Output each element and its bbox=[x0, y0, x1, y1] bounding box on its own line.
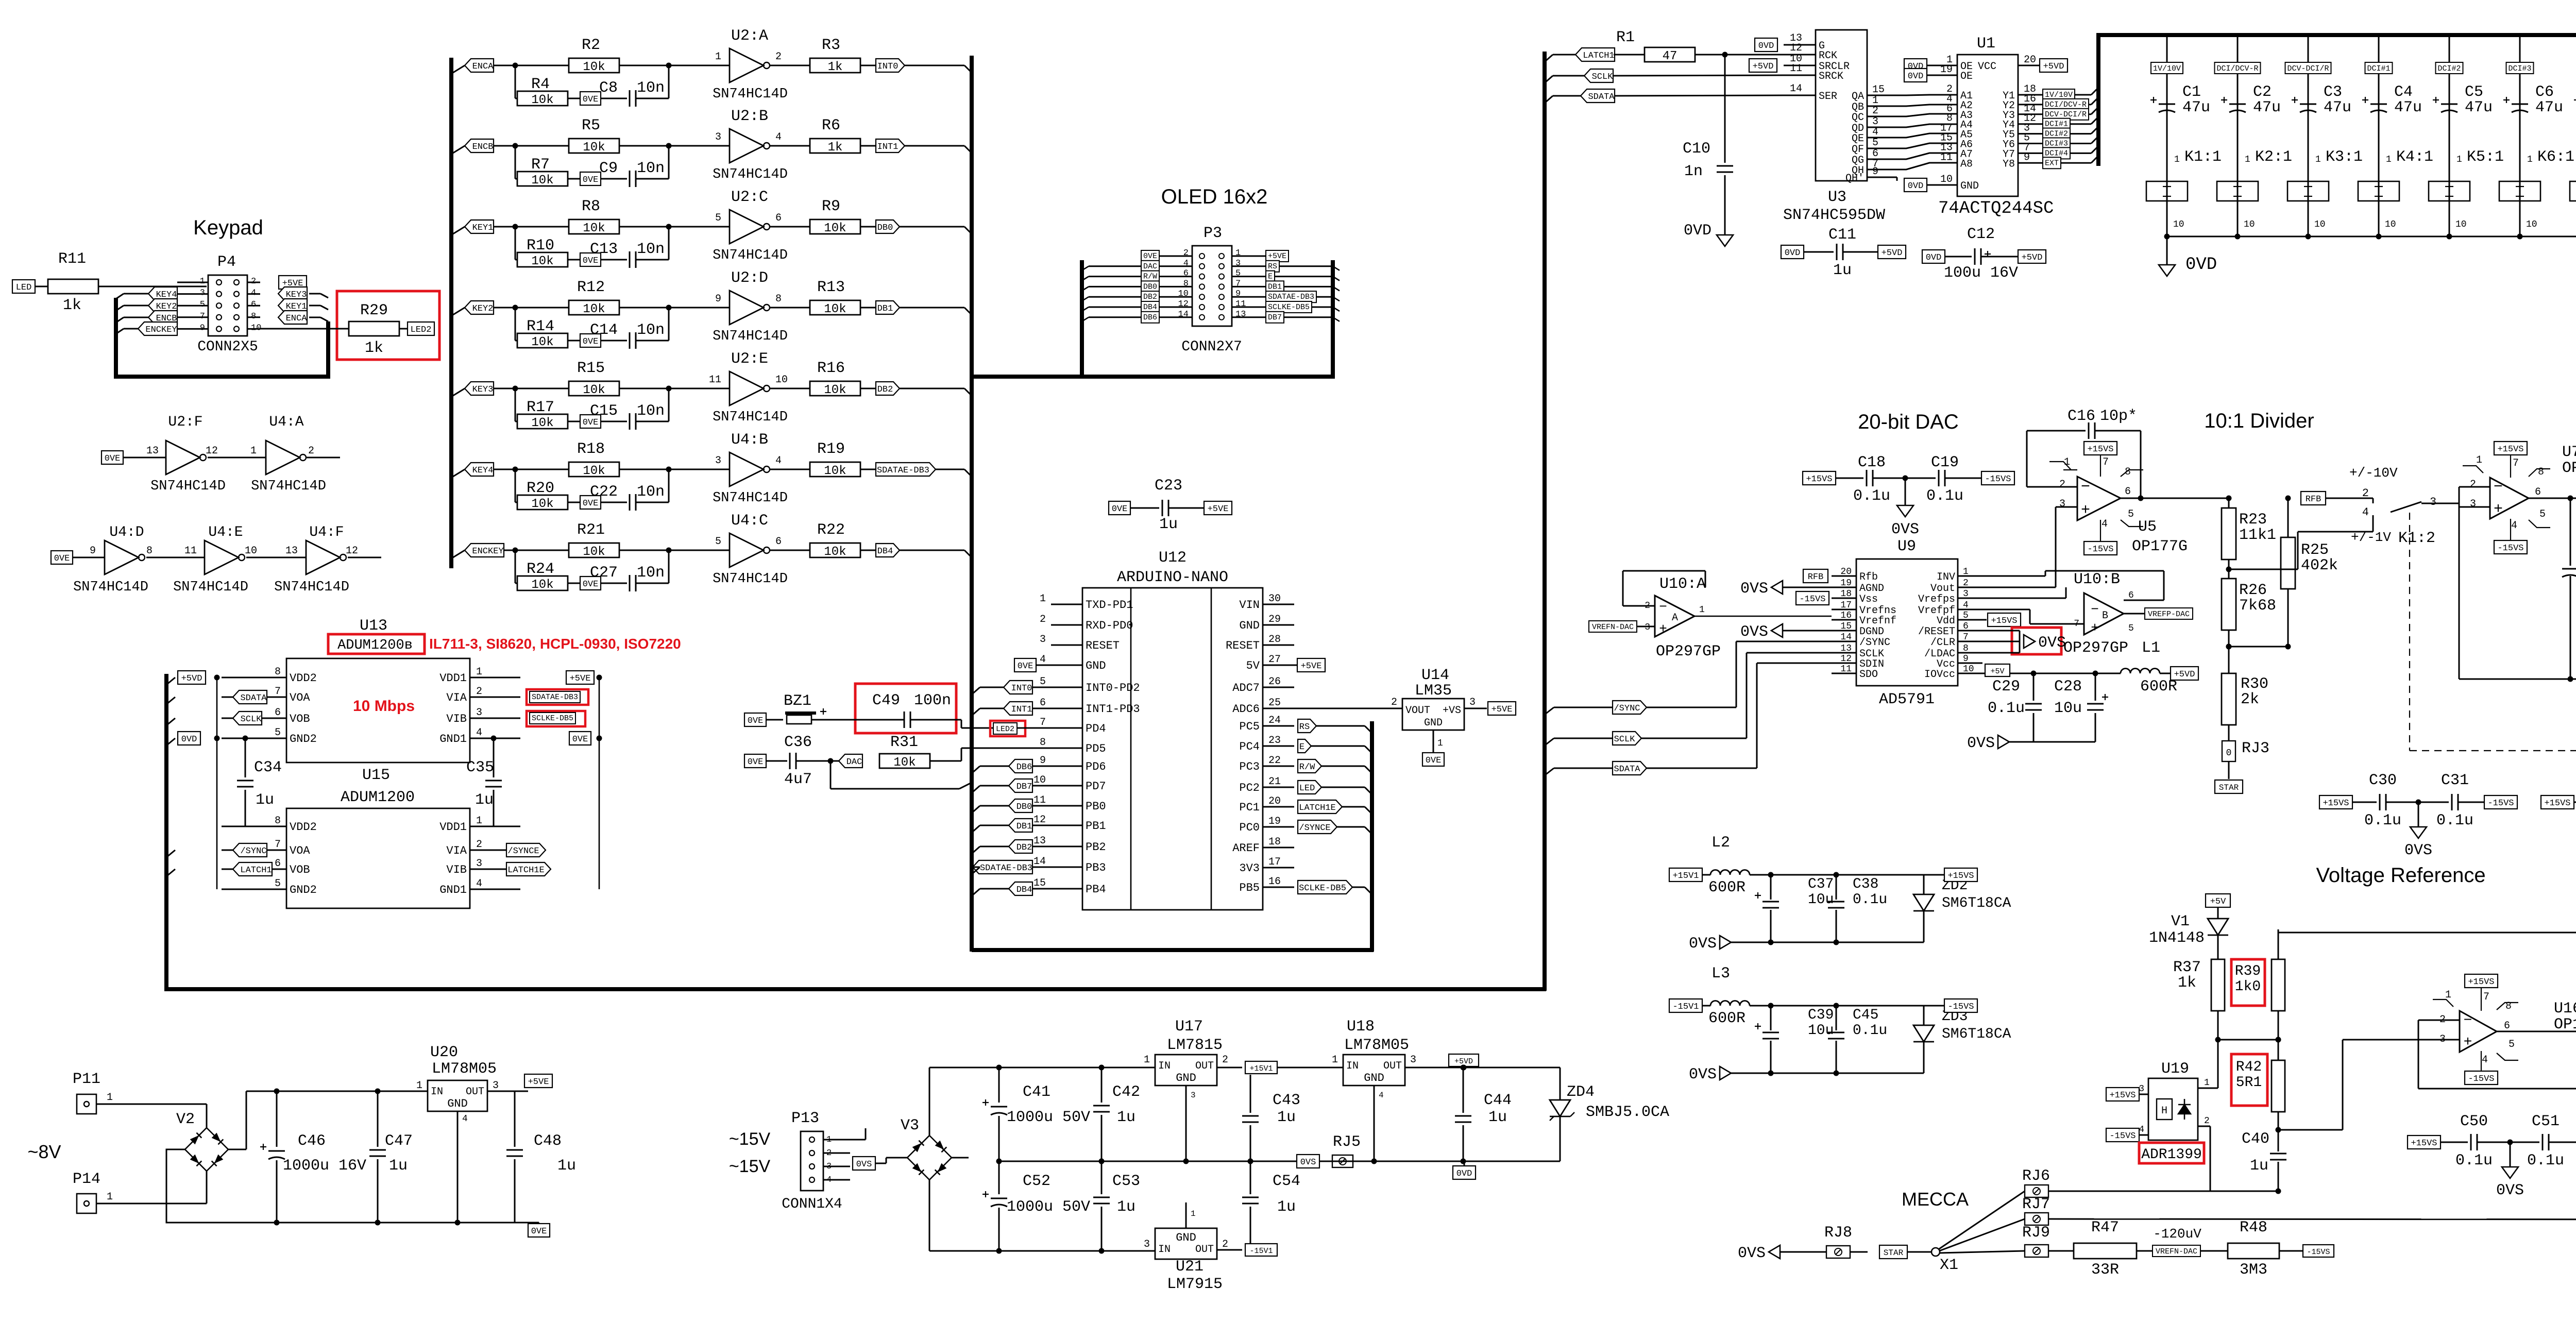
svg-text:VREFN-DAC: VREFN-DAC bbox=[1592, 623, 1634, 632]
svg-text:47u: 47u bbox=[2253, 99, 2281, 116]
svg-text:1k: 1k bbox=[828, 60, 843, 74]
wire row KEY1 branch bbox=[451, 227, 465, 235]
svg-text:402k: 402k bbox=[2301, 557, 2338, 574]
svg-text:11: 11 bbox=[1840, 664, 1852, 674]
svg-text:0VS: 0VS bbox=[1300, 1158, 1316, 1167]
svg-text:13: 13 bbox=[146, 445, 159, 457]
svg-text:+: + bbox=[2081, 502, 2090, 519]
svg-text:U2:F: U2:F bbox=[168, 414, 202, 430]
net label ENCB bbox=[148, 311, 177, 324]
svg-text:~8V: ~8V bbox=[27, 1141, 61, 1162]
svg-text:U12: U12 bbox=[1159, 549, 1187, 567]
svg-text:0VD: 0VD bbox=[1785, 248, 1801, 258]
svg-text:6: 6 bbox=[1963, 621, 1969, 632]
svg-text:-15VS: -15VS bbox=[2307, 1248, 2330, 1257]
svg-text:10k: 10k bbox=[824, 545, 846, 559]
svg-text:U10:B: U10:B bbox=[2074, 571, 2120, 588]
svg-text:5: 5 bbox=[1963, 611, 1969, 621]
svg-text:U3: U3 bbox=[1828, 189, 1846, 206]
svg-text:25: 25 bbox=[1268, 697, 1281, 709]
svg-text:K2:1: K2:1 bbox=[2255, 148, 2292, 166]
net label -15V1 U21 bbox=[1245, 1244, 1277, 1256]
net label +5V V1 bbox=[2206, 894, 2230, 907]
svg-text:0VS: 0VS bbox=[1740, 623, 1768, 641]
svg-text:1: 1 bbox=[1699, 605, 1705, 615]
svg-text:+5V: +5V bbox=[1990, 667, 2004, 676]
svg-text:R25: R25 bbox=[2301, 541, 2329, 559]
net label 0VD mid rail bbox=[1453, 1166, 1476, 1179]
wire to gate U4:B bbox=[669, 469, 730, 470]
svg-text:QF: QF bbox=[1852, 144, 1864, 156]
wire SCLK to U9 bbox=[1641, 738, 1747, 739]
svg-text:DCI#2: DCI#2 bbox=[2437, 64, 2461, 73]
svg-text:9: 9 bbox=[2024, 151, 2030, 163]
wire U5 output bbox=[2121, 498, 2229, 499]
svg-text:100n: 100n bbox=[914, 692, 951, 709]
net label SCLKE-DB5 bbox=[530, 713, 575, 724]
net label STAR X1 bbox=[1879, 1245, 1907, 1259]
wire R39R37 junction right bbox=[2276, 1037, 2281, 1043]
svg-text:DB1: DB1 bbox=[877, 304, 893, 314]
svg-text:+5VE: +5VE bbox=[1301, 662, 1322, 671]
bus ADUM left bbox=[164, 674, 168, 991]
svg-text:U16: U16 bbox=[2554, 1000, 2576, 1018]
wire gate U4:C output bbox=[770, 550, 810, 551]
svg-text:DCI#2: DCI#2 bbox=[2045, 130, 2068, 139]
svg-text:GND: GND bbox=[1086, 659, 1106, 672]
wire keypad left bbox=[124, 293, 148, 295]
svg-text:/SYNC: /SYNC bbox=[240, 846, 266, 856]
svg-text:+: + bbox=[2494, 501, 2503, 518]
svg-text:11: 11 bbox=[184, 545, 197, 557]
svg-text:5R1: 5R1 bbox=[2236, 1075, 2262, 1091]
svg-text:3: 3 bbox=[476, 858, 482, 870]
svg-text:21: 21 bbox=[1268, 776, 1281, 788]
svg-text:+15VS: +15VS bbox=[1947, 871, 1974, 881]
svg-text:0VS: 0VS bbox=[1738, 1245, 1766, 1262]
IC U15 body bbox=[286, 808, 470, 908]
svg-text:+/-1V: +/-1V bbox=[2351, 530, 2391, 545]
svg-text:DCV-DCI/R: DCV-DCI/R bbox=[2045, 110, 2087, 119]
svg-text:DB4: DB4 bbox=[1143, 303, 1157, 312]
svg-text:1: 1 bbox=[476, 815, 482, 827]
svg-text:7: 7 bbox=[1963, 632, 1969, 642]
svg-text:RJ3: RJ3 bbox=[2242, 740, 2269, 757]
svg-text:9: 9 bbox=[1872, 166, 1878, 178]
svg-text:PC0: PC0 bbox=[1239, 821, 1260, 834]
svg-text:0VS: 0VS bbox=[856, 1160, 872, 1170]
opamp U16 bbox=[2465, 974, 2498, 988]
svg-text:47u: 47u bbox=[2465, 99, 2493, 116]
svg-text:SDATAE-DB3: SDATAE-DB3 bbox=[980, 863, 1032, 873]
svg-text:C23: C23 bbox=[1155, 477, 1182, 495]
svg-text:2: 2 bbox=[2204, 1116, 2210, 1126]
svg-text:1: 1 bbox=[1332, 1054, 1338, 1066]
svg-text:3: 3 bbox=[2430, 496, 2436, 509]
svg-text:10n: 10n bbox=[637, 402, 665, 420]
svg-text:4: 4 bbox=[476, 878, 482, 890]
svg-text:-15VS: -15VS bbox=[1947, 1002, 1974, 1012]
svg-text:R29: R29 bbox=[360, 302, 388, 319]
svg-text:0VD: 0VD bbox=[1908, 181, 1924, 191]
svg-text:KEY2: KEY2 bbox=[472, 304, 494, 314]
svg-text:0VE: 0VE bbox=[105, 454, 121, 464]
svg-text:1k: 1k bbox=[828, 141, 843, 155]
svg-text:SN74HC14D: SN74HC14D bbox=[713, 87, 788, 102]
wire U20 gnd bbox=[457, 1111, 459, 1223]
bus relay feed bbox=[2096, 33, 2100, 166]
svg-text:DCI#1: DCI#1 bbox=[2367, 64, 2390, 73]
svg-text:30: 30 bbox=[1268, 593, 1281, 605]
net label -15VS U9 bbox=[1796, 591, 1829, 605]
svg-text:14: 14 bbox=[1790, 83, 1802, 95]
ground 0VD relays bbox=[2166, 236, 2168, 265]
svg-text:1u: 1u bbox=[1117, 1109, 1136, 1126]
svg-text:U4:E: U4:E bbox=[208, 524, 243, 540]
wire row ENCKEY branch bbox=[451, 550, 465, 558]
svg-text:10k: 10k bbox=[531, 416, 553, 430]
svg-text:4: 4 bbox=[2482, 1054, 2488, 1066]
wire column C1 bbox=[2166, 35, 2168, 236]
svg-text:10p*: 10p* bbox=[2100, 408, 2137, 425]
svg-text:/RESET: /RESET bbox=[1918, 626, 1955, 638]
svg-text:U19: U19 bbox=[2161, 1060, 2189, 1078]
svg-text:/SYNCE: /SYNCE bbox=[1299, 823, 1330, 833]
svg-text:2: 2 bbox=[476, 839, 482, 851]
svg-text:10k: 10k bbox=[824, 222, 846, 235]
svg-text:8: 8 bbox=[775, 293, 782, 305]
svg-text:PD6: PD6 bbox=[1086, 760, 1106, 773]
svg-text:U4:C: U4:C bbox=[731, 512, 768, 530]
svg-text:2: 2 bbox=[2059, 479, 2065, 490]
svg-text:C49: C49 bbox=[872, 692, 900, 709]
svg-text:3: 3 bbox=[715, 455, 721, 467]
wire to gate U4:C bbox=[669, 550, 730, 551]
svg-text:DAC: DAC bbox=[846, 757, 862, 767]
svg-text:K1:1: K1:1 bbox=[2184, 148, 2222, 166]
svg-text:9: 9 bbox=[715, 293, 721, 305]
svg-text:R18: R18 bbox=[577, 440, 605, 458]
svg-text:10:1 Divider: 10:1 Divider bbox=[2204, 410, 2314, 432]
svg-text:1u: 1u bbox=[475, 791, 494, 809]
net label KEY4 bbox=[465, 463, 494, 476]
svg-text:SCLK: SCLK bbox=[1614, 735, 1636, 744]
svg-text:0VE: 0VE bbox=[1426, 756, 1442, 766]
wire SDATA to U3 SER bbox=[1615, 95, 1784, 96]
svg-text:ADR1399: ADR1399 bbox=[2141, 1147, 2202, 1163]
svg-text:DCV-DCI/R: DCV-DCI/R bbox=[2287, 64, 2329, 73]
wire bottom rail relays bbox=[2167, 236, 2576, 238]
svg-text:3: 3 bbox=[1144, 1239, 1150, 1250]
svg-text:U21: U21 bbox=[1176, 1258, 1204, 1276]
svg-text:INT1-PD3: INT1-PD3 bbox=[1086, 703, 1140, 716]
svg-text:9: 9 bbox=[90, 545, 96, 557]
svg-text:0VD: 0VD bbox=[1684, 222, 1711, 240]
net label 0VE row KEY4 bbox=[580, 496, 601, 509]
svg-text:22: 22 bbox=[1268, 755, 1281, 767]
svg-text:12: 12 bbox=[346, 545, 358, 557]
svg-text:0.1u: 0.1u bbox=[2527, 1152, 2564, 1170]
opamp U7 bbox=[2494, 442, 2527, 455]
svg-text:GND: GND bbox=[447, 1097, 468, 1110]
bus inverter input bbox=[449, 58, 453, 568]
svg-text:SER: SER bbox=[1819, 91, 1837, 103]
svg-text:DB0: DB0 bbox=[1143, 282, 1157, 291]
svg-text:+5VD: +5VD bbox=[1454, 1057, 1473, 1066]
svg-text:-15VS: -15VS bbox=[2109, 1131, 2136, 1141]
svg-text:DB6: DB6 bbox=[1143, 313, 1157, 322]
svg-text:C16: C16 bbox=[2067, 408, 2095, 425]
svg-text:L2: L2 bbox=[1711, 834, 1730, 852]
net label KEY3 bbox=[465, 382, 494, 395]
svg-text:V1: V1 bbox=[2171, 913, 2190, 930]
svg-text:5: 5 bbox=[2128, 623, 2134, 634]
wire row KEY1 to bus bbox=[900, 226, 964, 228]
svg-text:CONN2X7: CONN2X7 bbox=[1181, 339, 1242, 355]
svg-text:DB0: DB0 bbox=[877, 223, 893, 233]
svg-text:RCK: RCK bbox=[1819, 50, 1837, 62]
svg-text:+5VE: +5VE bbox=[1208, 504, 1229, 514]
ground 0VS X1 bbox=[1769, 1245, 1780, 1259]
svg-text:R37: R37 bbox=[2173, 959, 2201, 976]
svg-text:27: 27 bbox=[1268, 654, 1281, 666]
wire divider bottom bbox=[2229, 646, 2288, 648]
svg-text:TXD-PD1: TXD-PD1 bbox=[1086, 599, 1133, 612]
svg-text:Y8: Y8 bbox=[2003, 158, 2015, 170]
net label 0VD OE2 bbox=[1904, 69, 1927, 82]
svg-text:14: 14 bbox=[1840, 632, 1852, 642]
net label ENCA bbox=[465, 59, 494, 72]
svg-text:E: E bbox=[1299, 742, 1304, 752]
wire gate U2:E output bbox=[770, 388, 810, 389]
svg-text:R8: R8 bbox=[582, 198, 600, 215]
wire mid rail 0V bbox=[999, 1161, 1560, 1162]
svg-text:DB7: DB7 bbox=[1016, 782, 1032, 792]
net label /SYNC bbox=[233, 843, 267, 857]
svg-text:IN: IN bbox=[1158, 1060, 1171, 1072]
svg-text:4: 4 bbox=[1040, 654, 1046, 666]
svg-text:C53: C53 bbox=[1112, 1173, 1140, 1190]
ground 0VS C50 bbox=[2507, 1140, 2513, 1145]
svg-text:SN74HC14D: SN74HC14D bbox=[713, 571, 788, 587]
svg-text:29: 29 bbox=[1268, 614, 1281, 625]
svg-text:-15VS: -15VS bbox=[1799, 595, 1825, 604]
svg-text:8: 8 bbox=[1040, 737, 1046, 749]
net label 0VS AGND bbox=[1771, 581, 1783, 594]
svg-text:R21: R21 bbox=[577, 521, 605, 539]
svg-text:SCLK: SCLK bbox=[1592, 72, 1614, 82]
svg-text:R3: R3 bbox=[822, 37, 840, 54]
wire U19 pin1 bbox=[2198, 1088, 2218, 1089]
svg-text:C3: C3 bbox=[2324, 83, 2342, 101]
svg-text:-15VS: -15VS bbox=[2487, 799, 2514, 808]
svg-text:5: 5 bbox=[2509, 1039, 2515, 1050]
svg-text:8: 8 bbox=[275, 666, 281, 678]
svg-text:LATCH1: LATCH1 bbox=[1583, 51, 1614, 61]
svg-text:2: 2 bbox=[1391, 697, 1397, 708]
bus bottom border bbox=[164, 987, 1546, 991]
svg-text:1n: 1n bbox=[1684, 163, 1703, 180]
svg-text:LED: LED bbox=[1299, 784, 1315, 793]
ground 0VS C18 bbox=[1903, 476, 1908, 481]
net label 0VE row ENCKEY bbox=[580, 577, 601, 590]
svg-text:DB4: DB4 bbox=[1016, 885, 1032, 895]
svg-text:C19: C19 bbox=[1931, 454, 1959, 471]
net label 0VE row KEY3 bbox=[580, 415, 601, 428]
svg-text:ENCA: ENCA bbox=[472, 62, 494, 72]
net label SDATA u3 bbox=[1545, 96, 1553, 103]
svg-text:7: 7 bbox=[275, 839, 281, 851]
svg-text:VIN: VIN bbox=[1239, 599, 1260, 612]
svg-text:6: 6 bbox=[2535, 486, 2541, 498]
svg-text:-120uV: -120uV bbox=[2153, 1226, 2201, 1242]
svg-text:VOUT: VOUT bbox=[1405, 705, 1430, 717]
svg-text:IN: IN bbox=[431, 1086, 443, 1098]
svg-text:C14: C14 bbox=[590, 321, 618, 339]
wire row ENCKEY to bus bbox=[900, 550, 964, 551]
net label SCLK u3 bbox=[1545, 76, 1553, 83]
svg-text:U17: U17 bbox=[1175, 1018, 1203, 1036]
svg-text:PC4: PC4 bbox=[1239, 740, 1260, 753]
svg-text:0VE: 0VE bbox=[572, 735, 588, 744]
svg-text:LM35: LM35 bbox=[1415, 682, 1452, 700]
svg-text:OLED 16x2: OLED 16x2 bbox=[1161, 185, 1268, 208]
svg-text:SCLK: SCLK bbox=[241, 715, 262, 724]
svg-text:Vout: Vout bbox=[1930, 583, 1955, 595]
svg-text:IOVcc: IOVcc bbox=[1924, 669, 1955, 681]
net label ENCKEY bbox=[138, 322, 177, 335]
svg-text:1000u 50V: 1000u 50V bbox=[1007, 1198, 1090, 1216]
svg-text:5: 5 bbox=[2128, 509, 2134, 520]
svg-text:KEY1: KEY1 bbox=[472, 223, 494, 233]
svg-text:10u: 10u bbox=[2054, 700, 2082, 717]
svg-text:0.1u: 0.1u bbox=[2455, 1152, 2493, 1170]
net label SDATAE-DB3 bbox=[530, 691, 580, 703]
dashed K1 link bbox=[2409, 513, 2410, 751]
svg-text:U2:A: U2:A bbox=[731, 27, 768, 45]
wire DAC to bus bbox=[830, 761, 832, 789]
net labels P3 left bbox=[1141, 250, 1159, 262]
svg-text:LM78M05: LM78M05 bbox=[1344, 1037, 1409, 1054]
svg-text:U4:F: U4:F bbox=[309, 524, 344, 540]
net label INT1 bbox=[876, 139, 905, 152]
net label 0VD U3G bbox=[1755, 38, 1777, 52]
svg-text:INT1: INT1 bbox=[1011, 705, 1032, 715]
net label +5VD U3 bbox=[1749, 59, 1777, 72]
svg-text:RESET: RESET bbox=[1086, 639, 1120, 652]
wire U10A bbox=[1694, 616, 1832, 617]
svg-text:C8: C8 bbox=[599, 79, 618, 97]
wire gate U2:D output bbox=[770, 307, 810, 309]
svg-text:V2: V2 bbox=[176, 1111, 195, 1128]
svg-text:10k: 10k bbox=[824, 302, 846, 316]
svg-text:DB0: DB0 bbox=[1016, 802, 1032, 812]
svg-text:1: 1 bbox=[1191, 1209, 1196, 1218]
svg-text:12: 12 bbox=[206, 445, 218, 457]
net label 0VD bbox=[178, 732, 200, 745]
svg-text:SN74HC14D: SN74HC14D bbox=[73, 580, 148, 595]
svg-text:C9: C9 bbox=[599, 160, 618, 177]
svg-text:R1: R1 bbox=[1616, 29, 1635, 46]
svg-text:C40: C40 bbox=[2242, 1130, 2269, 1148]
net label +15VS U19 bbox=[2106, 1088, 2139, 1101]
svg-text:U2:C: U2:C bbox=[731, 189, 768, 206]
wire U16 out bbox=[2497, 1031, 2576, 1032]
svg-text:/SYNCE: /SYNCE bbox=[507, 846, 539, 856]
svg-text:IL711-3, SI8620, HCPL-0930, IS: IL711-3, SI8620, HCPL-0930, ISO7220 bbox=[429, 636, 681, 652]
svg-text:ENCB: ENCB bbox=[472, 142, 494, 152]
svg-text:C10: C10 bbox=[1683, 140, 1710, 158]
svg-text:2: 2 bbox=[1040, 614, 1046, 625]
svg-text:E: E bbox=[1268, 273, 1273, 281]
svg-text:RESET: RESET bbox=[1226, 639, 1260, 652]
svg-text:0VS: 0VS bbox=[2496, 1182, 2524, 1199]
svg-text:VDD1: VDD1 bbox=[439, 672, 467, 685]
svg-text:3M3: 3M3 bbox=[2240, 1261, 2267, 1279]
svg-text:0VD: 0VD bbox=[1926, 253, 1942, 263]
svg-text:−: − bbox=[2081, 479, 2090, 496]
wire row KEY4 branch bbox=[451, 469, 465, 478]
svg-text:1k0: 1k0 bbox=[2235, 979, 2261, 995]
svg-text:LM78M05: LM78M05 bbox=[432, 1060, 497, 1078]
svg-text:+: + bbox=[1659, 621, 1667, 637]
wire row KEY4 input bbox=[494, 469, 569, 470]
svg-text:26: 26 bbox=[1268, 676, 1281, 688]
svg-text:1u: 1u bbox=[1488, 1109, 1507, 1126]
svg-text:C13: C13 bbox=[590, 241, 618, 258]
svg-text:6: 6 bbox=[2125, 486, 2131, 498]
svg-text:0.1u: 0.1u bbox=[2364, 812, 2401, 829]
svg-text:VOA: VOA bbox=[290, 844, 310, 857]
svg-text:10k: 10k bbox=[531, 93, 553, 107]
red highlight LED2 bbox=[990, 721, 1025, 736]
svg-text:6: 6 bbox=[1040, 697, 1046, 709]
svg-text:0VE: 0VE bbox=[748, 716, 764, 726]
wire U21 bbox=[1185, 1202, 1187, 1228]
svg-text:13: 13 bbox=[285, 545, 298, 557]
svg-text:1V/10V: 1V/10V bbox=[2153, 64, 2181, 73]
svg-text:SN74HC14D: SN74HC14D bbox=[713, 490, 788, 506]
capacitor C26 bbox=[2570, 498, 2571, 566]
svg-text:RJ5: RJ5 bbox=[1333, 1133, 1361, 1151]
capacitor C1 bbox=[2159, 104, 2175, 105]
svg-text:C47: C47 bbox=[385, 1132, 413, 1150]
svg-text:4: 4 bbox=[476, 727, 482, 739]
svg-text:PB1: PB1 bbox=[1086, 820, 1106, 833]
svg-text:INT0: INT0 bbox=[877, 62, 899, 72]
svg-text:SDATAE-DB3: SDATAE-DB3 bbox=[1268, 293, 1314, 301]
svg-text:+15V1: +15V1 bbox=[1249, 1064, 1273, 1073]
svg-text:2: 2 bbox=[1222, 1239, 1228, 1250]
svg-text:1u: 1u bbox=[1117, 1198, 1136, 1216]
svg-text:QC: QC bbox=[1852, 112, 1864, 124]
red highlight 0VS lclr bbox=[2012, 628, 2061, 654]
capacitor C4 bbox=[2370, 104, 2387, 105]
svg-text:-15VS: -15VS bbox=[2087, 545, 2113, 554]
svg-text:0VS: 0VS bbox=[1891, 521, 1919, 538]
svg-text:4: 4 bbox=[2511, 520, 2517, 532]
svg-text:12: 12 bbox=[1790, 42, 1802, 54]
svg-text:L1: L1 bbox=[2142, 639, 2160, 657]
svg-text:C34: C34 bbox=[254, 759, 282, 776]
svg-text:DCI/DCV-R: DCI/DCV-R bbox=[2045, 100, 2087, 109]
net label SDATA bbox=[233, 690, 267, 704]
net labels P3 right bbox=[1266, 250, 1289, 262]
svg-text:5: 5 bbox=[275, 878, 281, 890]
wire to gate U2:C bbox=[669, 226, 730, 228]
red highlight R42 bbox=[2231, 1054, 2267, 1106]
svg-text:INT0-PD2: INT0-PD2 bbox=[1086, 682, 1140, 694]
